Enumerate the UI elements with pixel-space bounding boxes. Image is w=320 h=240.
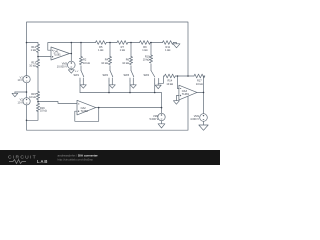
ground at SW1 <box>80 81 86 88</box>
node rail2 b2 <box>108 92 110 94</box>
V3 +- <box>161 114 163 119</box>
svg-text:10 kΩ: 10 kΩ <box>101 61 108 65</box>
wire V2 to bottom rail <box>27 97 189 131</box>
op-amp OA2 feedback loop <box>75 108 99 122</box>
wire left column <box>26 43 28 76</box>
op-amp OA1 <box>51 47 70 60</box>
switch SW2 <box>109 71 113 82</box>
svg-text:10 kΩ: 10 kΩ <box>166 82 173 86</box>
svg-text:10 kΩ: 10 kΩ <box>122 61 129 65</box>
OA3 -/+ <box>180 89 181 97</box>
svg-text:10 V: 10 V <box>18 78 24 82</box>
wire to OA2 feedback bottom <box>27 111 39 120</box>
resistor R9 (series ladder) <box>140 41 151 45</box>
wire junction to OA2 <box>37 100 39 104</box>
svg-text:10.000 V: 10.000 V <box>57 65 67 69</box>
OA2 -/+ <box>78 104 79 112</box>
node branch1 top <box>80 42 82 44</box>
node OA1 output <box>71 53 73 55</box>
VM3 +- <box>71 62 73 67</box>
resistor R7 (series ladder) <box>117 41 128 45</box>
wire <box>128 42 140 44</box>
op-amp OA1 feedback wire <box>48 43 72 54</box>
resistor R13 (vertical, lower divider) <box>36 59 39 67</box>
resistor R10 (branch 4, 2R) <box>149 55 152 63</box>
ground under VM3 <box>68 69 74 73</box>
ground at rail end <box>173 44 180 48</box>
branch 1 wire <box>80 43 82 57</box>
wire OA2 output <box>99 107 162 109</box>
svg-text:10 kΩ: 10 kΩ <box>29 95 36 99</box>
wire ground tap left <box>15 91 27 93</box>
CircuitLab logo <box>8 154 48 164</box>
svg-text:10 kΩ: 10 kΩ <box>143 58 150 62</box>
wire OA1 output riser on ladder rail <box>71 42 81 44</box>
svg-text:LAB: LAB <box>37 159 48 164</box>
wire <box>150 42 162 44</box>
ground at SW3 <box>130 81 136 88</box>
ground at SW4 <box>155 83 161 88</box>
wire R12-R13 junction <box>37 52 39 59</box>
junction dots <box>26 42 205 121</box>
node branch2 top <box>109 42 111 44</box>
svg-text:TL081: TL081 <box>182 92 190 96</box>
svg-text:1 kΩ: 1 kΩ <box>120 48 125 52</box>
source V2 <box>23 98 30 105</box>
svg-text:10 V: 10 V <box>18 100 24 104</box>
node branch4 top <box>150 42 152 44</box>
branch 2 wire <box>109 43 111 57</box>
svg-text:1 kΩ: 1 kΩ <box>142 48 147 52</box>
component value labels <box>18 45 203 121</box>
wire SW4 right throw to R14 <box>159 76 165 83</box>
svg-text:http://circuitlab.com/c6ta5tep: http://circuitlab.com/c6ta5tep <box>58 158 94 162</box>
wire feedback to output <box>204 76 205 92</box>
svg-text:0 V: 0 V <box>75 71 79 73</box>
svg-text:1 kΩ: 1 kΩ <box>31 48 36 52</box>
wire between V1 and V2 <box>26 83 28 98</box>
source V1 <box>23 76 30 83</box>
node branch3 top <box>130 42 132 44</box>
footer bar <box>0 150 220 165</box>
footer text <box>58 154 99 162</box>
node summing <box>177 75 179 77</box>
svg-text:1 kΩ: 1 kΩ <box>165 48 170 52</box>
svg-text:SW2: SW2 <box>102 73 108 77</box>
svg-text:TL081: TL081 <box>54 53 62 57</box>
resistor R12 (vertical, top-left divider) <box>36 44 39 52</box>
wire to SW2 <box>109 66 111 71</box>
ground left <box>12 92 18 97</box>
V2 +- <box>26 99 27 103</box>
wire to SW4 <box>150 64 152 70</box>
wire to SW1 <box>80 66 82 71</box>
node SW4 rail <box>154 92 156 94</box>
node OA2 in <box>37 101 39 103</box>
node OA1 fb top <box>71 42 73 44</box>
ground under V3 <box>158 121 165 128</box>
svg-text:10 kΩ: 10 kΩ <box>83 61 90 65</box>
svg-text:10 kΩ: 10 kΩ <box>196 82 203 86</box>
VM1 +- <box>203 115 204 120</box>
wire <box>106 42 117 44</box>
wire SW4 left throw to reference rail <box>154 83 156 92</box>
branch 3 wire <box>130 43 132 57</box>
node gnd tap left <box>26 91 28 93</box>
op-amp input polarity marks <box>26 50 204 119</box>
voltmeter VM3 <box>68 61 76 69</box>
resistor R15 (vertical, OA2 input) <box>36 92 39 100</box>
resistor R5 (series ladder) <box>96 41 107 45</box>
svg-text:SW4: SW4 <box>143 73 149 77</box>
svg-text:TL081: TL081 <box>81 109 89 113</box>
branch 4 wire <box>150 43 152 56</box>
wire divider down <box>37 67 39 91</box>
node rail2 b3 <box>129 92 131 94</box>
ground at OA3 + <box>173 101 179 105</box>
node rail-left <box>26 42 28 44</box>
resistor R6 (branch 3, 2R) <box>129 57 132 65</box>
wire SW2 to reference rail <box>108 81 110 93</box>
wire to op-amp + input <box>38 56 51 58</box>
svg-text:CIRCUIT: CIRCUIT <box>8 154 37 160</box>
node OA3 out <box>203 92 205 94</box>
node V3 top <box>161 107 163 109</box>
resistor R14 (OA3 input) <box>165 74 176 78</box>
voltmeter VM3 wire <box>70 54 72 62</box>
svg-text:1 kΩ: 1 kΩ <box>98 48 103 52</box>
resistor R4 (branch 2, 2R) <box>108 57 111 65</box>
voltmeter VM1 <box>200 114 208 122</box>
svg-text:10 kΩ: 10 kΩ <box>40 109 47 113</box>
resistor R11 (series ladder end) <box>163 41 174 45</box>
svg-text:4.000 V: 4.000 V <box>190 117 199 121</box>
wire OA3 + input to ground <box>176 96 179 101</box>
reference rail <box>80 93 162 108</box>
svg-text:SW3: SW3 <box>123 73 129 77</box>
ground under VM1 <box>199 121 208 130</box>
wire SW1 to reference rail <box>79 81 81 93</box>
node divider mid <box>37 56 39 58</box>
source V3 wire <box>161 108 163 114</box>
wire SW3 to reference rail <box>129 81 131 93</box>
svg-text:SW1: SW1 <box>73 73 79 77</box>
switch SW1 <box>80 71 84 82</box>
op-amp OA2 <box>77 100 96 115</box>
resistor R2 (branch 1, 2R) <box>79 57 82 65</box>
svg-text:5.000 V: 5.000 V <box>150 117 159 121</box>
svg-text:10 kΩ: 10 kΩ <box>29 63 36 67</box>
wire top rail outer <box>27 22 189 76</box>
wire to rail-end ground <box>173 43 176 44</box>
OA1 -/+ <box>52 50 53 57</box>
node V2 bottom junction <box>26 120 28 122</box>
op-amp OA3 <box>179 85 197 100</box>
node fb right <box>187 75 189 77</box>
wire R14 to summing node <box>175 75 194 77</box>
switch SW3 <box>130 71 134 82</box>
V1 +- <box>26 77 27 81</box>
ladder rail segment <box>81 42 96 44</box>
wire OA3 output <box>197 92 204 113</box>
wire rail start <box>27 43 39 45</box>
node OA2 out <box>98 107 100 109</box>
switch SW4 <box>151 71 159 84</box>
source V3 <box>158 113 165 120</box>
ground at SW2 <box>109 81 115 88</box>
wire to SW3 <box>130 66 132 71</box>
resistor R17 (OA3 feedback) <box>194 74 205 78</box>
resistor R16 (vertical, OA2 feedback leg) <box>36 103 39 111</box>
wire summing drop to OA3 - input <box>178 76 179 89</box>
